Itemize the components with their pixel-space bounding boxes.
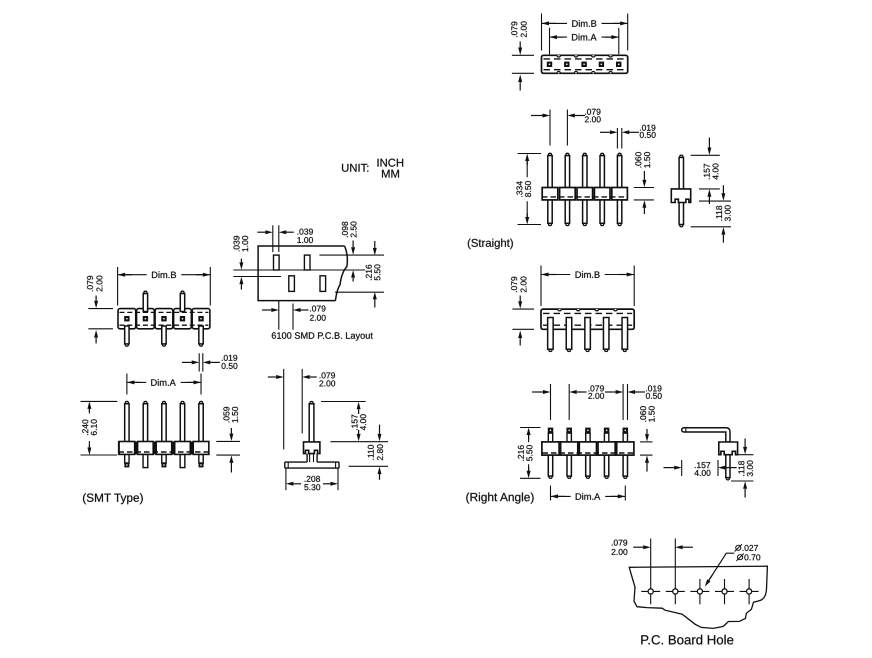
SMT top view: square pin contacts: [124, 316, 204, 321]
SMT top view: insulator cells: [118, 309, 210, 329]
label (Straight): [468, 239, 513, 250]
right-angle front view: pins below body: [548, 452, 627, 478]
right-angle side view: tail length dimension .118/3.00: [731, 439, 754, 498]
units note UNIT: INCH / MM: [342, 159, 403, 178]
straight header top view: insulator body: [542, 55, 628, 73]
SMT front view: feet (1,3,5 toward viewer with black tips): [124, 454, 203, 467]
SMT front view: 5 pins: [125, 401, 204, 443]
straight front view: insulator blocks: [542, 188, 627, 200]
label 6100 SMD P.C.B. Layout: [272, 332, 373, 340]
straight side view: dimension .118/3.00: [691, 185, 731, 242]
right-angle top view: 5 pins pointing down: [548, 318, 628, 352]
SMT top view: Dim.B dimension: [118, 267, 211, 306]
right-angle front view: overall height dimension .216/5.50: [515, 428, 540, 479]
SMT front view: body height dimension .059/1.50: [216, 407, 240, 473]
SMT top view: pins down (positions 1, 3, 5): [125, 326, 204, 346]
SMT side view: pitch dimension .079/2.00 with phantom pin line: [268, 369, 335, 450]
hole diameter leader and callout ∅.027/∅0.70: [705, 544, 760, 587]
straight side view: dimension .157/4.00: [691, 138, 720, 205]
SMT top view: pins up (positions 2 and 4): [143, 291, 184, 311]
hole pitch dimension .079/2.00: [612, 540, 693, 555]
SMD layout: solder pads (staggered rows): [274, 255, 326, 291]
right-angle top view: Dim.B dimension: [541, 266, 634, 307]
right-angle top view: insulator body: [541, 309, 634, 329]
SMT side view: height dimension .157/4.00: [321, 402, 388, 442]
SMD layout: row span dimension .216/5.50 with reference lines: [319, 241, 384, 308]
straight side view: insulator body with bottom notches: [671, 189, 690, 203]
SMD layout: outline with torn right edge: [258, 246, 347, 301]
SMT side view: gull-wing feet: [285, 454, 339, 469]
right-angle front view: pitch dimension .079/2.00: [532, 384, 604, 420]
straight front view: pin width dimension .019/0.50: [600, 125, 656, 149]
label (Right Angle): [466, 493, 533, 504]
straight header top view: Dim.B dimension: [542, 14, 628, 51]
SMT front view: overall height dimension .240/6.10: [81, 401, 118, 455]
straight front view: overall length dimension .334/8.50: [514, 154, 541, 225]
label (SMT Type): [83, 493, 143, 504]
SMD layout: pad top inset dimension .098/2.50: [342, 222, 357, 255]
straight header top view: Dim.A dimension: [550, 28, 619, 55]
SMT side view: insulator body with bottom notches: [304, 442, 320, 454]
right-angle side view: insulator body with bottom notches: [719, 442, 738, 455]
SMT front view: feet (2,4 away from viewer): [143, 454, 185, 467]
right-angle side view: pin below body: [726, 455, 730, 480]
right-angle front view: body height dimension .060/1.50: [640, 406, 655, 471]
SMT front view: insulator blocks with black gaps: [118, 442, 209, 455]
SMD layout: pad width dimension .039/1.00 (top): [257, 225, 313, 252]
right-angle front view: insulator blocks: [542, 442, 634, 455]
straight front view: 5 pins: [548, 153, 622, 225]
SMD layout: row offset dimension .039/1.00 (left): [233, 236, 365, 290]
right-angle front view: pin width dimension .019/0.50: [605, 384, 662, 420]
straight header top view: pin contacts (5 square pins): [547, 62, 622, 67]
SMT side view: pin: [309, 402, 314, 446]
SMT front view: Dim.A dimension: [127, 374, 201, 395]
right-angle top view: pitch dimension .079/2.00: [511, 277, 534, 346]
straight front view: body height dimension .060/1.50: [634, 152, 654, 214]
label P.C. Board Hole: [641, 635, 733, 645]
SMT side view: dimension .110/2.80: [349, 425, 388, 480]
SMT top view: pin width dimension .019/0.50: [182, 353, 237, 371]
right-angle front view: 5 bent pin tips (black squares) and necks: [548, 428, 628, 444]
straight side view: pin: [679, 155, 683, 227]
right-angle front view: Dim.A dimension: [551, 486, 626, 502]
SMT top view: pitch dimension .079/2.00: [87, 276, 113, 344]
right-angle side view: arm length dimension .157/4.00: [664, 460, 737, 476]
P.C. board torn-edge outline: [629, 566, 767, 628]
straight header top view: pitch dimension .079/2.00: [511, 21, 534, 90]
5 plated holes with crosshairs: [641, 539, 758, 605]
right-angle side view: bent pin (horizontal arm, elbow, vertical tail): [682, 428, 730, 442]
SMT side view: foot span dimension .208/5.30: [286, 468, 338, 490]
straight front view: pitch dimension .079/2.00: [531, 109, 601, 146]
SMD layout: pitch dimension .079/2.00 (bottom): [262, 301, 326, 330]
